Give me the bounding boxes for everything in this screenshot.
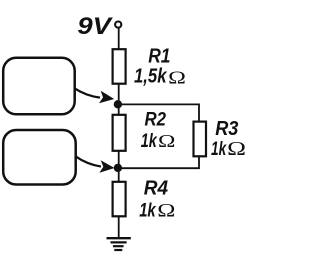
svg-text:R1: R1 [148,46,170,68]
svg-text:1k: 1k [141,130,158,152]
svg-text:1,5k: 1,5k [134,66,167,88]
svg-text:R2: R2 [145,110,167,131]
svg-text:1k: 1k [139,200,156,222]
svg-text:9V: 9V [77,13,113,40]
svg-text:Ω: Ω [157,200,175,220]
svg-text:Ω: Ω [168,68,186,88]
svg-text:1k: 1k [211,138,227,160]
svg-text:Ω: Ω [158,133,175,152]
svg-text:R4: R4 [144,177,168,199]
svg-text:Ω: Ω [227,138,246,160]
